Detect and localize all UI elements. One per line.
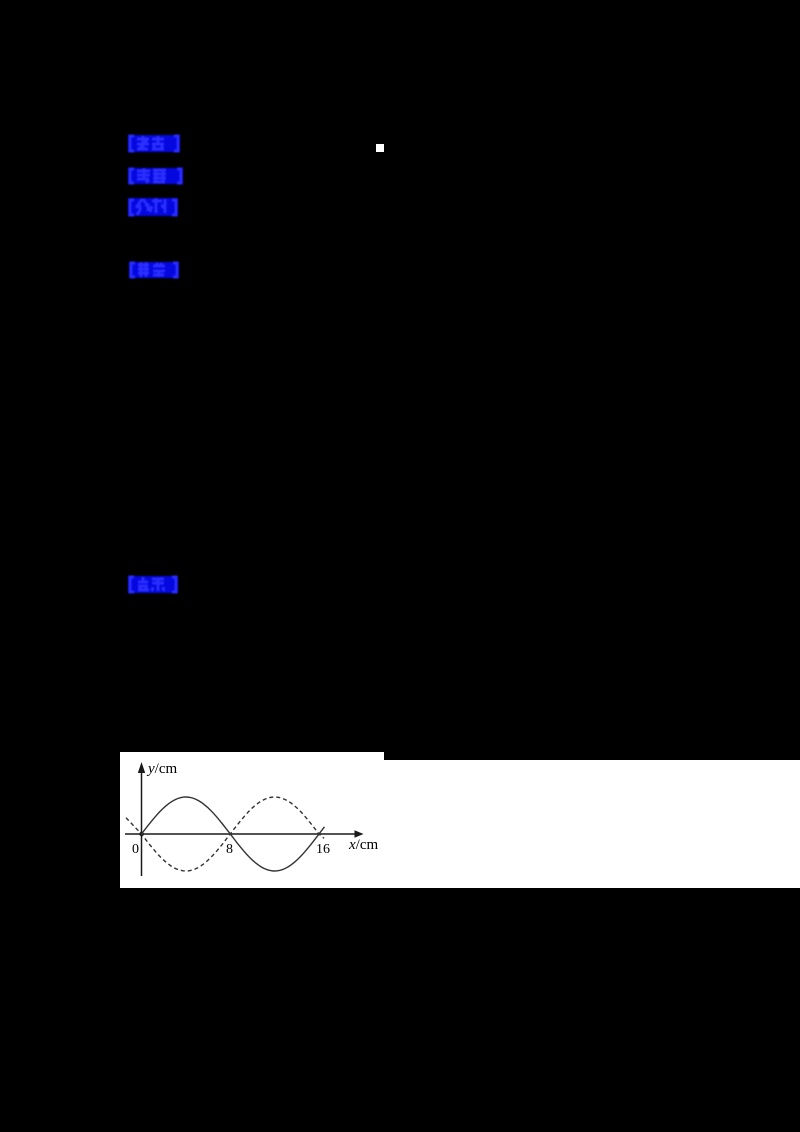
y axis arrowhead [138,762,145,773]
origin dot [139,832,143,836]
svg-text:0: 0 [132,842,139,857]
dashed wave [126,797,324,871]
solid wave [142,797,325,871]
blue label jieda [126,259,182,281]
svg-text:16: 16 [316,842,330,857]
blue label dianping [125,573,181,596]
wave figure white box [120,752,384,888]
small white square [376,144,384,152]
svg-text:y/cm: y/cm [146,761,177,777]
svg-text:x/cm: x/cm [348,837,378,853]
x axis [125,833,358,835]
svg-text:8: 8 [226,842,233,857]
right white rectangle [384,760,800,888]
blue label zhuanti [125,165,186,187]
x axis arrowhead [355,830,364,838]
y axis [141,765,143,876]
blue label fenxi [125,195,181,219]
blue label kaodian [125,132,183,155]
